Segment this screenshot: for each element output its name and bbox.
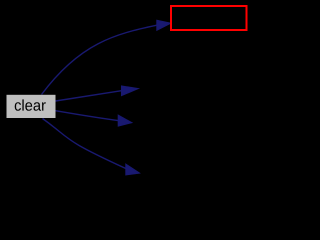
node clear <box>7 95 56 118</box>
node truncated (red border) <box>171 6 247 30</box>
node clear label <box>15 99 46 110</box>
arrowhead edge3 <box>118 115 132 126</box>
wire edge3 <box>55 111 118 121</box>
wire edge2 <box>56 91 122 101</box>
wire edge4 <box>43 119 126 169</box>
arrowhead edge1 <box>157 20 171 30</box>
arrowhead edge2 <box>122 86 139 96</box>
wire edge1 clear -> truncated node <box>42 25 157 94</box>
arrowhead edge4 <box>126 164 140 175</box>
